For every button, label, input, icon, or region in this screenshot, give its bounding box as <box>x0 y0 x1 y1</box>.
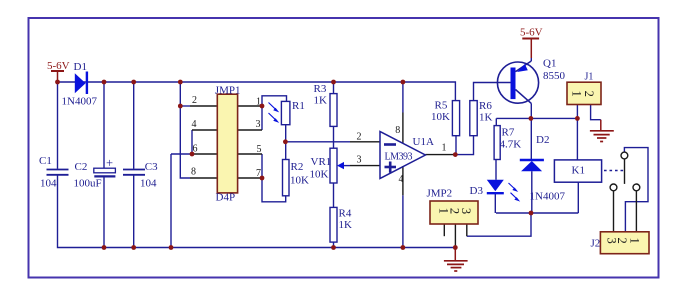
svg-text:JMP1: JMP1 <box>215 85 241 97</box>
svg-text:1: 1 <box>442 143 447 154</box>
svg-text:R6: R6 <box>479 100 492 112</box>
svg-text:U1A: U1A <box>413 136 434 148</box>
svg-text:2: 2 <box>615 237 629 243</box>
svg-text:1K: 1K <box>339 219 353 231</box>
svg-text:J1: J1 <box>585 72 594 83</box>
svg-text:8550: 8550 <box>543 70 566 82</box>
svg-text:1: 1 <box>569 90 583 96</box>
svg-text:1: 1 <box>628 237 642 243</box>
svg-text:8: 8 <box>395 125 400 136</box>
svg-text:C2: C2 <box>75 161 88 173</box>
svg-text:5-6V: 5-6V <box>520 27 543 39</box>
svg-text:C3: C3 <box>145 161 158 173</box>
svg-text:104: 104 <box>40 178 57 190</box>
svg-text:R2: R2 <box>291 161 304 173</box>
svg-text:3: 3 <box>357 155 362 166</box>
svg-text:JMP2: JMP2 <box>427 188 453 200</box>
svg-text:D2: D2 <box>536 134 549 146</box>
svg-text:7: 7 <box>256 168 261 179</box>
svg-text:8: 8 <box>191 167 196 178</box>
svg-text:+: + <box>106 156 113 170</box>
svg-text:C1: C1 <box>39 155 52 167</box>
svg-text:4: 4 <box>192 119 197 130</box>
svg-text:1K: 1K <box>479 112 493 124</box>
svg-text:R4: R4 <box>339 208 352 220</box>
svg-text:5: 5 <box>257 144 262 155</box>
svg-text:Q1: Q1 <box>543 58 556 70</box>
svg-text:1K: 1K <box>314 95 328 107</box>
svg-text:4.7K: 4.7K <box>500 139 522 151</box>
svg-text:D4P: D4P <box>216 192 236 204</box>
svg-text:2: 2 <box>582 91 596 97</box>
svg-text:4: 4 <box>399 174 404 185</box>
svg-text:LM393: LM393 <box>385 152 413 163</box>
svg-text:R3: R3 <box>314 83 327 95</box>
svg-text:R5: R5 <box>435 100 448 112</box>
svg-text:10K: 10K <box>431 111 450 123</box>
svg-text:1: 1 <box>256 97 261 108</box>
svg-text:3: 3 <box>256 119 261 130</box>
svg-text:D3: D3 <box>470 185 484 197</box>
svg-text:10K: 10K <box>310 169 329 181</box>
svg-text:100uF: 100uF <box>74 178 102 190</box>
svg-text:R1: R1 <box>292 100 305 112</box>
svg-text:2: 2 <box>192 95 197 106</box>
svg-text:1N4007: 1N4007 <box>530 191 566 203</box>
svg-text:3: 3 <box>459 208 473 214</box>
svg-text:5-6V: 5-6V <box>47 60 70 72</box>
svg-text:6: 6 <box>193 144 198 155</box>
svg-text:VR1: VR1 <box>311 156 332 168</box>
svg-text:J2: J2 <box>591 238 601 250</box>
svg-text:10K: 10K <box>290 175 309 187</box>
svg-text:D1: D1 <box>74 61 87 73</box>
svg-text:K1: K1 <box>572 165 585 177</box>
svg-text:104: 104 <box>140 178 157 190</box>
svg-text:2: 2 <box>357 132 362 143</box>
svg-text:R7: R7 <box>502 127 515 139</box>
svg-text:1N4007: 1N4007 <box>62 96 98 108</box>
